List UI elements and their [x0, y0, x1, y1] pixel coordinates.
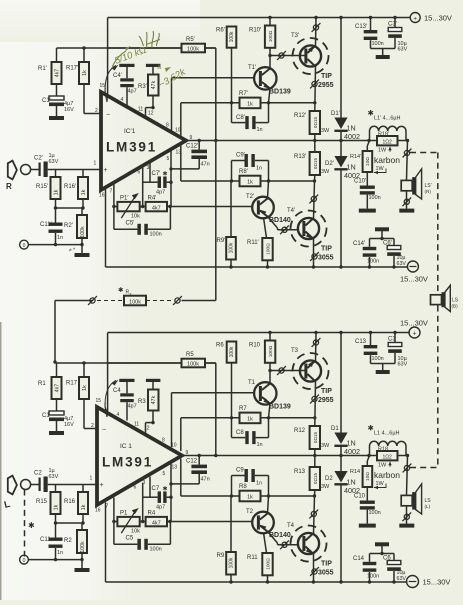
- svg-text:63V: 63V: [49, 474, 59, 480]
- svg-text:1k: 1k: [247, 102, 253, 108]
- svg-text:47n: 47n: [201, 162, 210, 168]
- resistor R16&#8242;: [78, 170, 88, 200]
- capacitor C11&#8242;: [49, 208, 63, 245]
- svg-text:C3′: C3′: [388, 22, 398, 28]
- wire R4 right node: [167, 520, 253, 523]
- svg-text:C14′: C14′: [353, 241, 366, 247]
- negative rail: [106, 581, 408, 583]
- label R18 power: [378, 462, 392, 469]
- pin 1 label: [94, 161, 97, 167]
- resistor R5: [182, 359, 206, 368]
- svg-text:T2′: T2′: [246, 194, 255, 200]
- label C4&#8242;: [113, 73, 123, 79]
- transistor T3&#8242; TIP2955: [293, 38, 329, 74]
- label T1: [248, 380, 256, 386]
- svg-text:R10: R10: [249, 343, 261, 349]
- wire diode mid: [340, 132, 342, 156]
- wire input to C2: [30, 169, 39, 171]
- svg-text:15: 15: [100, 83, 106, 89]
- svg-text:R6: R6: [216, 343, 224, 349]
- wire R17 to pin2: [84, 84, 101, 114]
- wire bias top: [57, 361, 216, 364]
- label R12 power: [321, 128, 330, 134]
- label R11: [247, 555, 258, 561]
- svg-text:R7: R7: [239, 406, 247, 412]
- label P1: [120, 511, 128, 517]
- ground below R2&#8242;: [75, 245, 90, 257]
- label C5 value: [150, 232, 162, 238]
- ground below C10: [359, 510, 376, 528]
- pin 9 label: [186, 450, 189, 456]
- label R14&#8242;: [350, 154, 361, 160]
- dashed bridge bus top: [410, 152, 438, 154]
- label C14&#8242;: [353, 241, 366, 247]
- wire T4 collector: [309, 181, 318, 219]
- label T3: [291, 348, 299, 354]
- wire R5 to rail: [205, 362, 216, 364]
- svg-text:2955: 2955: [318, 82, 334, 89]
- label D1 type: [344, 439, 360, 457]
- ground below C13 C3: [376, 370, 390, 374]
- svg-text:2955: 2955: [318, 397, 334, 404]
- svg-text:1k: 1k: [82, 385, 88, 391]
- wire IC to negative rail: [105, 188, 107, 268]
- svg-text:3055: 3055: [318, 570, 334, 577]
- svg-text:x: x: [130, 291, 132, 296]
- svg-text:−: −: [102, 427, 106, 434]
- wire output: [186, 139, 409, 142]
- resistor R3 top bar: [146, 379, 161, 390]
- label C10 value: [369, 510, 381, 516]
- svg-text:0Ω15: 0Ω15: [313, 158, 318, 170]
- wire T4 emitter: [312, 239, 315, 269]
- svg-text:C9′: C9′: [236, 153, 246, 159]
- label R7: [239, 406, 247, 412]
- pin 3 label: [143, 480, 146, 486]
- svg-text:4k7: 4k7: [152, 205, 161, 211]
- svg-text:3W: 3W: [321, 169, 330, 175]
- resistor R13&#8242;: [310, 141, 320, 182]
- handwritten scribble tuft: [139, 31, 160, 48]
- svg-text:T1: T1: [248, 380, 256, 386]
- pin 9 label: [190, 135, 193, 141]
- wire R6 stem: [231, 48, 233, 123]
- transistor T4 TIP3055: [291, 526, 327, 562]
- svg-text:✱: ✱: [163, 171, 168, 178]
- label D1 type: [344, 124, 360, 142]
- wire diode column bottom: [339, 486, 342, 584]
- label C9 value: [256, 481, 262, 487]
- label C7 value: [156, 505, 165, 511]
- dashed input link L: [24, 490, 26, 557]
- svg-text:0Ω15: 0Ω15: [313, 117, 318, 129]
- wire C14 C6 join: [370, 552, 395, 555]
- transistor T1&#8242; BD139: [254, 67, 276, 89]
- wire R15-R16 bottom node: [54, 199, 85, 210]
- svg-text:karbon: karbon: [374, 155, 400, 165]
- label C10&#8242;: [354, 179, 367, 185]
- label C10: [354, 494, 366, 500]
- pin 15 label: [100, 83, 106, 89]
- resistor R8&#8242;: [240, 176, 261, 187]
- svg-text:100Ω: 100Ω: [266, 243, 272, 255]
- label C1: [42, 413, 50, 419]
- label C6 value: [397, 255, 407, 267]
- capacitor C11: [49, 523, 63, 560]
- transistor T3 TIP2955: [293, 353, 329, 389]
- pin 2 label: [95, 108, 98, 114]
- resistor R2&#8242;: [77, 208, 87, 245]
- pin 13 label: [172, 465, 178, 471]
- svg-text:R4′: R4′: [148, 196, 158, 202]
- svg-text:R18: R18: [378, 446, 388, 452]
- wire pin3 stub: [149, 162, 151, 183]
- label T3&#8242;: [291, 33, 300, 39]
- svg-text:15: 15: [96, 398, 102, 404]
- svg-text:T4: T4: [287, 523, 295, 529]
- label C11&#8242;: [40, 222, 53, 228]
- ground below C1: [49, 431, 64, 435]
- svg-text:T4′: T4′: [287, 208, 296, 214]
- svg-text:C8: C8: [236, 430, 244, 436]
- svg-text:100k: 100k: [187, 362, 199, 368]
- label R10: [249, 343, 261, 349]
- capacitor C4&#8242; top bar: [119, 64, 134, 79]
- svg-text:R15: R15: [36, 499, 48, 505]
- label R2: [64, 538, 72, 544]
- capacitor C1&#8242;: [49, 84, 64, 116]
- capacitor C14&#8242;: [363, 239, 377, 269]
- svg-text:63V: 63V: [397, 576, 407, 582]
- svg-text:T1′: T1′: [248, 65, 257, 71]
- capacitor C2: [39, 477, 48, 493]
- positive rail: [108, 332, 410, 334]
- label P1 value: [131, 214, 140, 220]
- svg-text:1n: 1n: [57, 550, 63, 556]
- svg-text:10k: 10k: [131, 529, 140, 535]
- label C6: [383, 556, 391, 562]
- label C14: [353, 556, 365, 562]
- svg-text:R2: R2: [64, 538, 72, 544]
- capacitor C8&#8242;: [232, 103, 269, 129]
- svg-text:R18′: R18′: [378, 131, 389, 137]
- svg-text:C6′: C6′: [383, 241, 393, 247]
- wire R5 to rail: [205, 47, 216, 49]
- svg-text:1: 1: [90, 476, 93, 482]
- svg-text:TIP: TIP: [321, 246, 332, 253]
- label TIP 3055: [310, 246, 334, 262]
- wire T3 collector: [314, 66, 317, 111]
- resistor R11&#8242;: [262, 238, 272, 269]
- wire speaker to ground: [402, 191, 411, 209]
- label R15&#8242;: [36, 184, 49, 190]
- label BD140: [269, 217, 291, 224]
- svg-text:100k: 100k: [80, 226, 86, 238]
- wire T3 emitter to rail: [312, 16, 321, 46]
- svg-text:C5′: C5′: [126, 221, 136, 227]
- label C2 value: [49, 153, 59, 165]
- svg-text:R15′: R15′: [36, 184, 49, 190]
- resistor R2: [77, 523, 87, 560]
- label C11: [40, 537, 51, 543]
- svg-text:C4: C4: [113, 388, 121, 394]
- svg-text:C1: C1: [42, 413, 50, 419]
- transistor T4&#8242; TIP3055: [291, 211, 327, 247]
- svg-text:✱: ✱: [28, 521, 35, 530]
- bridge loudspeaker LS: [431, 285, 451, 311]
- wire C2 to pin1: [48, 169, 101, 171]
- svg-text:P1: P1: [120, 511, 128, 517]
- ground node 0: [20, 240, 29, 249]
- svg-text:0: 0: [23, 558, 26, 564]
- label D2&#8242;: [325, 161, 335, 167]
- diode D1&#8242; 1N4002: [334, 118, 347, 133]
- resistor R4&#8242;: [146, 202, 167, 211]
- resistor R9: [226, 496, 236, 584]
- label R17&#8242;: [66, 66, 79, 72]
- svg-text:IC′1: IC′1: [124, 128, 136, 135]
- resistor R11: [262, 553, 272, 584]
- svg-text:C3: C3: [388, 337, 396, 343]
- svg-text:10k: 10k: [131, 214, 140, 220]
- trimmer P1&#8242;: [117, 193, 139, 218]
- ground below C1&#8242;: [49, 116, 64, 120]
- resistor Rx: [124, 296, 146, 306]
- label R5: [186, 352, 194, 358]
- label R10&#8242;: [249, 28, 262, 34]
- svg-text:TIP: TIP: [321, 73, 332, 80]
- wire Rx right: [182, 300, 216, 302]
- label Rx: [118, 286, 132, 296]
- wire to speaker: [403, 141, 412, 181]
- svg-text:16V: 16V: [64, 107, 74, 113]
- svg-text:3: 3: [147, 165, 150, 171]
- wire input to C2: [30, 484, 39, 486]
- svg-text:LM391: LM391: [106, 140, 157, 155]
- label C14 value: [367, 574, 379, 580]
- pin 16 label: [95, 508, 101, 514]
- svg-text:D1′: D1′: [331, 111, 341, 117]
- svg-text:C12: C12: [186, 459, 198, 465]
- label R17: [66, 381, 78, 387]
- svg-text:R5′: R5′: [186, 37, 196, 43]
- positive terminal: [410, 13, 420, 23]
- label T4: [287, 523, 295, 529]
- resistor R15&#8242;: [51, 170, 61, 200]
- label R4&#8242;: [148, 196, 158, 202]
- label R8: [239, 484, 247, 490]
- svg-text:5: 5: [167, 156, 170, 162]
- svg-text:63V: 63V: [398, 362, 408, 368]
- label supply voltage -: [423, 578, 451, 587]
- svg-text:TIP: TIP: [321, 388, 332, 395]
- label karbon: [374, 470, 400, 480]
- label L1: [368, 424, 400, 437]
- svg-text:15...30V: 15...30V: [400, 319, 428, 328]
- wire R17 to pin2: [84, 399, 97, 429]
- resistor R5&#8242;: [182, 44, 206, 53]
- svg-text:R12: R12: [294, 428, 306, 434]
- input label L: [3, 499, 11, 511]
- svg-text:100k: 100k: [229, 242, 235, 253]
- label TIP 2955: [310, 73, 334, 89]
- resistor R3: [148, 390, 159, 423]
- svg-text:L1′ 4...6µH: L1′ 4...6µH: [374, 115, 401, 121]
- capacitor C10&#8242;: [360, 172, 375, 195]
- label C13 value: [372, 356, 384, 362]
- svg-text:4p7: 4p7: [156, 505, 165, 511]
- op-amp IC&#8242;1 LM391: [101, 92, 186, 190]
- label D2 type: [344, 478, 360, 496]
- label R8&#8242;: [239, 169, 249, 175]
- capacitor C4: [120, 393, 134, 420]
- svg-text:P1′: P1′: [120, 196, 129, 202]
- capacitor C4 top bar: [119, 379, 134, 394]
- svg-text:D2′: D2′: [325, 161, 335, 167]
- svg-text:C1′: C1′: [42, 98, 52, 104]
- svg-text:15...30V: 15...30V: [423, 578, 451, 587]
- svg-text:10Ω: 10Ω: [365, 157, 371, 166]
- capacitor C10: [360, 487, 375, 510]
- wire T2 collector: [264, 533, 267, 554]
- svg-text:1n: 1n: [257, 127, 263, 133]
- transistor T2&#8242; BD140: [252, 197, 274, 219]
- svg-text:✱: ✱: [163, 486, 168, 493]
- resistor R1: [52, 363, 62, 399]
- curved arrow at C4&#8242;: [105, 65, 119, 102]
- wire diode column bottom: [339, 171, 342, 269]
- svg-text:6: 6: [134, 485, 137, 491]
- wire pin13 to R8: [181, 459, 316, 498]
- wire R3 to pins 11 12: [146, 421, 155, 433]
- svg-text:16: 16: [99, 193, 105, 199]
- label C7 value: [156, 190, 165, 196]
- svg-text:11: 11: [138, 107, 143, 113]
- pin 11 label: [134, 422, 139, 428]
- label karbon power: [374, 166, 386, 174]
- svg-text:R7′: R7′: [239, 91, 249, 97]
- resistor R18&#8242;: [377, 136, 398, 145]
- svg-text:13: 13: [172, 465, 178, 471]
- pin 12 label: [144, 426, 150, 432]
- svg-text:8: 8: [162, 438, 165, 444]
- label T2: [246, 509, 254, 515]
- label R15: [36, 499, 48, 505]
- wire V+ to IC: [107, 333, 109, 412]
- label R9&#8242;: [217, 238, 227, 244]
- wire R7 right node: [261, 101, 317, 104]
- label R9: [217, 553, 225, 559]
- transistor T2 BD140: [252, 512, 274, 534]
- wire R3 to pins 11 12: [146, 106, 155, 118]
- capacitor C6&#8242;: [387, 239, 401, 269]
- pin 10 label: [171, 443, 177, 449]
- label karbon power: [374, 481, 386, 489]
- label C14 value: [367, 259, 379, 265]
- pin 5 label: [167, 156, 170, 162]
- svg-text:TIP: TIP: [321, 561, 332, 568]
- label C12 value: [201, 162, 210, 168]
- label supply voltage +: [400, 319, 428, 328]
- svg-text:4k7: 4k7: [55, 384, 61, 392]
- pin 8 label: [166, 123, 169, 129]
- label T1&#8242;: [248, 65, 257, 71]
- inductor L1&#8242;: [370, 126, 407, 140]
- svg-text:10Ω: 10Ω: [365, 472, 371, 481]
- svg-text:4002: 4002: [344, 447, 360, 456]
- label C2&#8242;: [34, 156, 44, 162]
- wire pin10 to R7: [181, 101, 240, 136]
- svg-text:4k7: 4k7: [55, 69, 61, 77]
- svg-text:100k: 100k: [80, 541, 86, 553]
- resistor R13: [310, 456, 320, 497]
- label IC name: [120, 443, 132, 450]
- label R4: [148, 511, 156, 517]
- svg-text:T2: T2: [246, 509, 254, 515]
- svg-text:R2′: R2′: [64, 223, 74, 229]
- svg-text:4k7: 4k7: [152, 520, 161, 526]
- label C2 value: [49, 468, 59, 480]
- diode D1 1N4002: [334, 433, 347, 448]
- resistor R17&#8242;: [79, 48, 89, 84]
- svg-text:R5: R5: [186, 352, 194, 358]
- label R6&#8242;: [216, 28, 226, 34]
- resistor R12: [310, 426, 320, 457]
- wire pin13 to R8: [181, 144, 316, 183]
- capacitor C12&#8242;: [171, 141, 207, 169]
- label R14: [350, 469, 360, 475]
- svg-text:R: R: [6, 182, 12, 191]
- svg-text:karbon: karbon: [374, 470, 400, 480]
- svg-text:R6′: R6′: [216, 28, 226, 34]
- svg-text:15...30V: 15...30V: [400, 275, 428, 284]
- wire T1 emitter: [269, 404, 271, 418]
- svg-text:1k: 1k: [81, 189, 87, 195]
- dashed bridge bus bottom: [410, 467, 438, 469]
- svg-text:1n: 1n: [257, 442, 263, 448]
- dashed bridge bus vertical: [437, 153, 439, 468]
- svg-text:R17: R17: [66, 381, 78, 387]
- resistor R15: [51, 485, 61, 515]
- label C4: [113, 388, 121, 394]
- label R16&#8242;: [64, 184, 77, 190]
- trimmer P1: [117, 508, 139, 533]
- svg-text:100n: 100n: [369, 510, 381, 516]
- label R2&#8242;: [64, 223, 74, 229]
- svg-text:3W: 3W: [321, 484, 330, 490]
- capacitor C4&#8242;: [120, 78, 134, 105]
- label C13&#8242;: [355, 24, 368, 30]
- label R7&#8242;: [239, 91, 249, 97]
- capacitor C5: [114, 522, 170, 550]
- label C3&#8242;: [388, 22, 398, 28]
- svg-text:C4′: C4′: [113, 73, 123, 79]
- label TIP 2955: [310, 388, 334, 404]
- svg-text:+: +: [104, 167, 108, 174]
- svg-text:3055: 3055: [318, 255, 334, 262]
- label R13&#8242;: [294, 154, 307, 160]
- svg-text:4p7: 4p7: [156, 190, 165, 196]
- negative terminal: [407, 261, 418, 272]
- input arrow R: [8, 161, 17, 180]
- svg-text:R8: R8: [239, 484, 247, 490]
- label supply voltage +: [424, 14, 452, 23]
- resistor R14&#8242;: [363, 141, 373, 173]
- pin 11 label: [138, 107, 143, 113]
- svg-text:100n: 100n: [372, 41, 384, 47]
- svg-text:C9: C9: [236, 468, 244, 474]
- svg-text:(L): (L): [425, 504, 431, 509]
